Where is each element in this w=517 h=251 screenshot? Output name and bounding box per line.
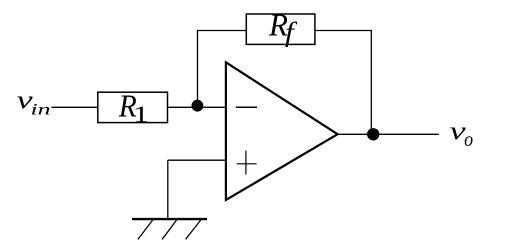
wire: feedback top-left segment to Rf	[197, 30, 246, 32]
wire: v_in lead to R1	[52, 106, 99, 108]
wire: vertical from inverting-input node up to feedback	[197, 31, 199, 108]
op-amp inverting input '−' marking	[236, 106, 257, 108]
wire: vertical from non-inverting input down to ground	[167, 160, 169, 219]
svg-text:in: in	[31, 102, 51, 119]
op-amp non-inverting input '+' marking	[237, 151, 257, 175]
wire: op-amp output to v_o	[337, 133, 439, 135]
wire: R1 to inverting input of op-amp	[168, 106, 226, 108]
resistor Rf	[246, 6, 315, 47]
svg-text:1: 1	[133, 102, 149, 128]
node: junction dot at output	[367, 128, 379, 140]
node: junction dot at inverting input	[192, 100, 204, 112]
wire: Rf to feedback top-right corner	[315, 30, 372, 32]
svg-text:o: o	[464, 129, 473, 151]
node v_in label	[17, 87, 51, 119]
wire: non-inverting input lead	[168, 159, 226, 161]
ground	[132, 219, 207, 239]
node v_o label	[450, 118, 473, 151]
op-amp U1	[226, 62, 338, 200]
wire: feedback right vertical down to output node	[370, 31, 372, 135]
resistor R1	[98, 87, 168, 128]
